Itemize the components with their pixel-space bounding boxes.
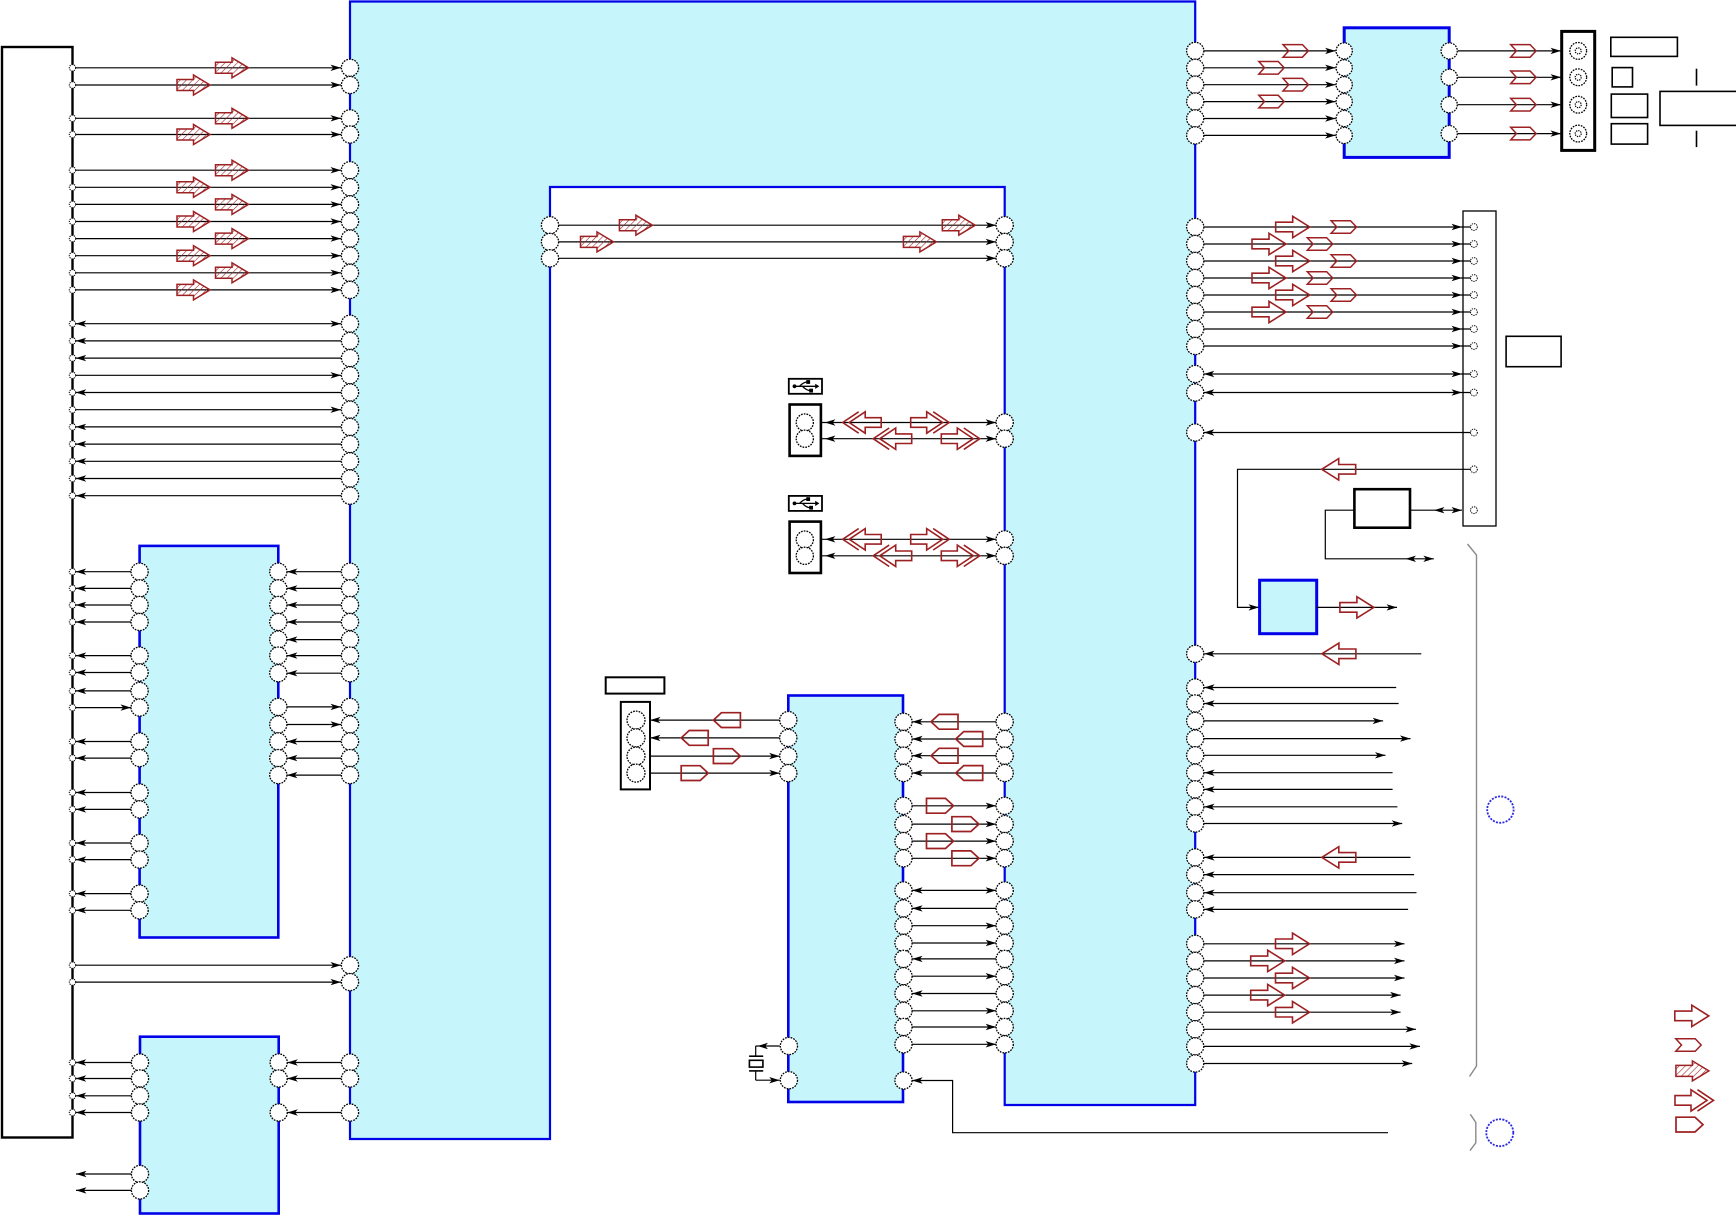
USB connector J1: [790, 405, 821, 456]
wire U1 GPIO row y=704: [1204, 700, 1399, 706]
wire U4 to U1 row y=858: [912, 851, 996, 866]
wire U1 to U2 row y=673: [287, 670, 341, 676]
wire CN2-U1 bidirectional row y=392: [1204, 389, 1471, 395]
wire CN2 to U6 (routed): [1238, 459, 1471, 611]
wire U4-U1 bus row y=1044: [912, 1041, 996, 1047]
U4 right pins: [895, 713, 912, 1089]
wire U1 GPIO row y=1064: [1204, 1060, 1412, 1066]
wire U2 to CN1 row y=656: [76, 652, 131, 658]
U1 left pins: [341, 59, 358, 1121]
plate A: [1611, 37, 1678, 56]
wire U3 output row y=1190: [76, 1187, 131, 1193]
wire U1 to U2 row y=707: [287, 704, 341, 710]
wire U1 GPIO row y=739: [1204, 735, 1410, 741]
wire U4-U1 bus row y=890: [912, 887, 996, 893]
left main board connector CN1: [2, 47, 73, 1138]
wire U1 to CN2 row y=278: [1204, 267, 1471, 288]
wire U1 to CN2 row y=312: [1204, 301, 1471, 322]
wire U1 to CN2 row y=261: [1204, 250, 1471, 271]
wire CN1 to U1 row y=982: [76, 979, 341, 985]
U4 left pins: [780, 712, 797, 782]
page reference circle B: [1486, 1119, 1513, 1146]
wire U4-U1 bus row y=1027: [912, 1024, 996, 1030]
wire CN1 to U1 bus row y=410: [76, 407, 341, 413]
wire M1 aux bidirectional: [1325, 510, 1434, 562]
wire CN2 to U1 row y=432: [1204, 429, 1471, 435]
wire CN1 to U1 bus row y=375: [76, 372, 341, 378]
wire U2 to CN1 row y=843: [76, 840, 131, 846]
wire U4-U1 bus row y=943: [912, 940, 996, 946]
wire CN1 to U1 row y=170: [76, 160, 341, 180]
wire U1 GPIO row y=944: [1204, 933, 1404, 954]
wire U2 to CN1 row y=894: [76, 890, 131, 896]
wire CN1 to U1 bus row y=358: [76, 355, 341, 361]
wire CN5 to U4 row y=720: [650, 713, 780, 728]
wire U1 to U5 row y=68: [1204, 62, 1336, 75]
wire U2 to CN1 row y=792: [76, 789, 131, 795]
wire U1 to U2 row y=656: [287, 652, 341, 658]
battery stub bottom: [1696, 131, 1698, 147]
U5 left pins: [1336, 43, 1352, 144]
U1 inner-left pins: [541, 217, 558, 267]
right board connector CN2: [1463, 211, 1496, 526]
wire CN5 to U4 row y=738: [650, 731, 780, 746]
small label plate above CN5: [606, 677, 665, 693]
wire U1 internal bus row 1: [559, 215, 997, 235]
wire U4-U1 bus row y=976: [912, 973, 996, 979]
wire U2 to CN1 row y=860: [76, 856, 131, 862]
wire U1 GPIO row y=978: [1204, 967, 1404, 988]
wire U2 to CN1 row y=605: [76, 602, 131, 608]
wire U1 GPIO row y=807: [1204, 804, 1397, 810]
wire U4-U1 bus row y=1011: [912, 1008, 996, 1014]
tuner module M1 (black box): [1354, 489, 1410, 528]
wire U1 to U5 row y=85: [1204, 78, 1336, 91]
wire U1 GPIO row y=961: [1204, 950, 1404, 971]
wire U1 GPIO row y=995: [1204, 984, 1401, 1005]
wire U4-U1 bus row y=994: [912, 990, 996, 996]
wire U1 GPIO row y=654: [1204, 643, 1421, 664]
wire CN1 to U1 bus row y=427: [76, 424, 341, 430]
legend arrow type4: [1675, 1090, 1714, 1111]
wire CN2-U1 bidirectional row y=374: [1204, 371, 1471, 377]
wire U5 to RCA jacks row y=134: [1458, 127, 1561, 140]
wire U4 to U1 row y=806: [912, 798, 996, 813]
legend arrow type3: [1676, 1061, 1709, 1081]
wire U2 to CN1 row y=588: [76, 585, 131, 591]
wire CN5 to U4 row y=773: [650, 766, 780, 781]
wire U1 to U4 row y=756: [912, 748, 996, 763]
U4 crystal pins: [780, 1037, 797, 1088]
wire CN1 to U1 row y=85: [76, 75, 341, 95]
wire CN1 to U1 row y=256: [76, 246, 341, 266]
wire U2 to CN1 row y=691: [76, 688, 131, 694]
legend arrow type5: [1676, 1117, 1703, 1132]
4-pin connector CN5: [621, 702, 650, 790]
wire U2 to CN1 row y=809: [76, 806, 131, 812]
wire CN1 to U1 row y=290: [76, 280, 341, 300]
wire U1 GPIO row y=1029: [1204, 1026, 1416, 1032]
wire U1 to U2 row y=588: [287, 585, 341, 591]
wire U1 GPIO row y=789: [1204, 786, 1393, 792]
page reference circle A: [1487, 796, 1513, 822]
wire U1 to U3 row y=1078: [287, 1075, 341, 1081]
wire U4-U1 bus row y=959: [912, 956, 996, 962]
wire CN1 to U1 bus row y=341: [76, 338, 341, 344]
grouping bracket (small): [1470, 1114, 1476, 1150]
wire U1 to U2 row y=622: [287, 619, 341, 625]
wire U1 to U5 row y=102: [1204, 95, 1336, 108]
U2 left pins: [131, 563, 148, 919]
wire U2 to CN1 row y=572: [76, 569, 131, 575]
wire U2 to CN1 row y=672: [76, 669, 131, 675]
wire U1 GPIO row y=893: [1204, 890, 1416, 896]
main system IC U1 (large cyan block): [350, 2, 1195, 1140]
wire U4 serial out to page ref: [912, 1077, 1388, 1132]
wire M1 to CN2 bidirectional: [1410, 507, 1462, 513]
wire U1 internal bus row 3: [559, 255, 997, 261]
wire CN1 to U1 row y=68: [76, 58, 341, 78]
crystal X1 circuit: [749, 1043, 780, 1084]
wire U1 GPIO row y=688: [1204, 684, 1396, 690]
wire U1 to U2 row y=572: [287, 569, 341, 575]
wire USB data pair y=439: [821, 428, 996, 449]
wire CN1 to U1 row y=118: [76, 108, 341, 128]
regulator U6 (small cyan box): [1260, 580, 1317, 634]
RCA jack block J2: [1562, 31, 1595, 150]
wire U4 to U1 row y=841: [912, 834, 996, 849]
wire U1 to U4 row y=739: [912, 732, 996, 747]
wire U6 output: [1317, 597, 1397, 618]
wire U4-U1 bus row y=908: [912, 905, 996, 911]
wire U1 GPIO row y=773: [1204, 770, 1393, 776]
wire U1 internal bus row 2: [559, 232, 997, 252]
CN1 pins: [69, 65, 75, 1116]
U2 right pins: [270, 563, 287, 784]
front panel / key IC U4 (middle-bottom cyan block): [788, 696, 903, 1103]
wire U5 to RCA jacks row y=51: [1458, 45, 1561, 58]
wire U1 to U2 row y=742: [287, 738, 341, 744]
wire U1 GPIO row y=1046: [1204, 1043, 1420, 1049]
wire U1 to U2 row y=724: [287, 721, 341, 727]
wire U1 GPIO row y=721: [1204, 718, 1383, 724]
wire USB data pair y=556: [821, 545, 996, 566]
plate D: [1611, 124, 1647, 144]
wire U1 GPIO row y=875: [1204, 871, 1414, 877]
wire U3 to CN1 row y=1112: [76, 1109, 132, 1115]
legend arrow type2: [1676, 1039, 1701, 1052]
wire U1 to U5 row y=118: [1204, 115, 1336, 121]
wire CN1 to U1 bus row y=444: [76, 441, 341, 447]
wire U2 to CN1 row y=758: [76, 755, 131, 761]
wire CN1 to U1 row y=134: [76, 125, 341, 145]
wire U1 to U5 row y=51: [1204, 45, 1336, 58]
wire U2 to CN1 row y=622: [76, 619, 131, 625]
wire U1 to CN2 row y=329: [1204, 326, 1471, 332]
power/driver IC U3 (bottom-left cyan block): [140, 1037, 279, 1214]
wire CN1 to U1 bus row y=461: [76, 458, 341, 464]
wire U2 to CN1 row y=910: [76, 907, 131, 913]
wire U1 to U2 row y=605: [287, 602, 341, 608]
wire U2 to CN1 row y=742: [76, 738, 131, 744]
USB connector J2: [790, 522, 821, 573]
wire U1 to U2 row y=640: [287, 636, 341, 642]
wire U1 GPIO row y=857: [1204, 847, 1410, 868]
wire U1 to U2 row y=758: [287, 755, 341, 761]
CN2 pins: [1471, 224, 1478, 514]
wire U4 to U1 row y=824: [912, 817, 996, 832]
wire USB data pair y=539: [821, 529, 996, 550]
wire U3 to CN1 row y=1078: [76, 1075, 132, 1081]
wire CN1 to U1 row y=273: [76, 263, 341, 283]
wire U1 to CN2 row y=346: [1204, 343, 1471, 349]
wire U1 to CN2 row y=295: [1204, 284, 1471, 305]
wire CN1 to U1 bus row y=478: [76, 475, 341, 481]
wire U1 to U4 row y=773: [912, 766, 996, 781]
grouping bracket (tall): [1468, 544, 1477, 1077]
wire USB data pair y=422: [821, 412, 996, 433]
wire CN1 to U1 row y=187: [76, 177, 341, 197]
plate C: [1611, 94, 1647, 117]
video amp IC U5 (top-right cyan block): [1344, 28, 1449, 158]
wire U1 to U2 row y=775: [287, 772, 341, 778]
wire U1 GPIO row y=824: [1204, 820, 1402, 826]
wire U1 GPIO row y=909: [1204, 906, 1408, 912]
U1 right pins: [1187, 42, 1204, 1072]
wire CN1 to U1 row y=222: [76, 212, 341, 232]
wire CN1 to U1 bus row y=392: [76, 389, 341, 395]
U5 right pins: [1441, 43, 1457, 142]
U3 right pins: [270, 1054, 287, 1121]
USB logo plate 2: [789, 496, 822, 511]
legend arrow type1: [1675, 1005, 1709, 1026]
wire U1 GPIO row y=1012: [1204, 1002, 1401, 1023]
wire U3 output row y=1174: [76, 1171, 131, 1177]
wire U1 to U3 row y=1062: [287, 1059, 341, 1065]
wire U3 to CN1 row y=1062: [76, 1059, 132, 1065]
U3 left pins: [131, 1054, 148, 1199]
wire U5 to RCA jacks row y=77: [1458, 71, 1561, 84]
plate F (right of CN2): [1506, 336, 1561, 366]
plate B: [1612, 68, 1632, 87]
battery stub top: [1696, 69, 1698, 86]
U1 inner-right pins: [996, 217, 1013, 1053]
wire U5 to RCA jacks row y=105: [1458, 98, 1561, 111]
wire CN1 to U1 bus row y=324: [76, 321, 341, 327]
battery plate E: [1660, 91, 1736, 125]
wire CN1 to U1 bus row y=496: [76, 493, 341, 499]
wire CN1 to U2 row y=708: [76, 704, 131, 710]
wire U1 to CN2 row y=244: [1204, 233, 1471, 254]
wire CN1 to U1 row y=965: [76, 962, 341, 968]
CN5 pins: [627, 711, 645, 782]
wire U1 to CN2 row y=227: [1204, 216, 1471, 237]
wire CN5 to U4 row y=756: [650, 749, 780, 764]
wire U1 to U4 row y=722: [912, 714, 996, 729]
wire CN1 to U1 row y=204: [76, 194, 341, 214]
wire CN1 to U1 row y=239: [76, 229, 341, 249]
wire U1 to U3 row y=1112: [287, 1109, 341, 1115]
USB logo plate 1: [789, 379, 822, 394]
interface IC U2 (mid-left cyan block): [140, 546, 279, 938]
wire U1 to U5 row y=135: [1204, 132, 1336, 138]
wire U4-U1 bus row y=926: [912, 923, 996, 929]
wire U1 GPIO row y=755: [1204, 752, 1385, 758]
wire U3 to CN1 row y=1096: [76, 1093, 132, 1099]
